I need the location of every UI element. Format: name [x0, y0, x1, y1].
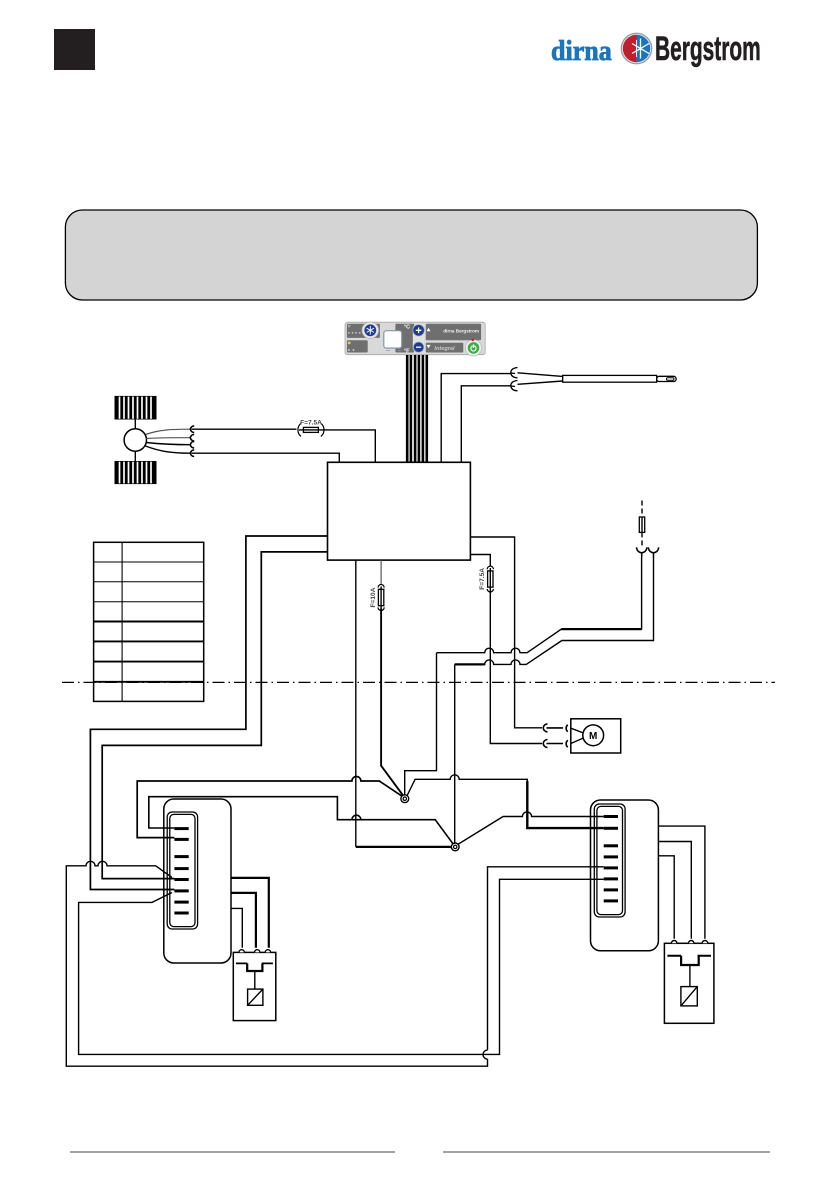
wire box-left to left connector pin5 — [102, 552, 327, 879]
connector fork F4 left — [637, 547, 647, 557]
wire upper horizontal to dashed fuse fork — [437, 557, 642, 653]
power button — [465, 340, 481, 356]
junction node N2 — [451, 843, 459, 851]
right connector to relay K2 wires — [658, 826, 705, 939]
wire node N1 to left connector pin2 — [137, 777, 402, 838]
up arrow — [427, 328, 431, 331]
bottom bus outer: left pin4 to right pin5 — [66, 861, 487, 1066]
svg-text:Bergstrom: Bergstrom — [655, 29, 761, 68]
svg-text:F=10A: F=10A — [370, 587, 377, 607]
snowflake button — [362, 322, 379, 339]
wire fuse F1 to box — [323, 430, 375, 462]
wire fuse F2 to node N1 — [381, 609, 403, 797]
wire left connector pin1 to node N2 — [149, 797, 453, 844]
banner rounded rectangle — [65, 210, 757, 300]
wire fan supply to fuse F1 — [192, 428, 297, 430]
motor M1 — [571, 719, 621, 753]
connector pair motor lower — [543, 740, 563, 748]
centre dash-dot line — [62, 681, 775, 683]
logo dirna Bergstrom — [551, 29, 761, 68]
inline fuse F4 dashed leads — [639, 501, 644, 549]
connector fork fan 4 — [190, 450, 194, 457]
wire sensor lead A — [441, 374, 511, 463]
junction node N1 — [401, 795, 409, 803]
connector fork sensor B — [511, 381, 518, 391]
connector fork fan 2 — [190, 434, 194, 441]
yellow LED — [348, 342, 351, 345]
control box U1 — [328, 462, 471, 560]
panel bottom-left dark block — [347, 340, 368, 352]
svg-text:°C: °C — [404, 325, 410, 331]
svg-text:M: M — [589, 731, 597, 742]
left connector X1 — [164, 799, 231, 963]
CONTROL PANEL — [345, 322, 485, 356]
wire box-right through fuse F3 (lower) — [470, 555, 490, 567]
connector pair motor upper — [543, 724, 563, 732]
fuse F3 7.5A vertical — [487, 566, 493, 592]
left connector to relay K1 wires — [231, 878, 269, 948]
down arrow — [427, 345, 431, 348]
connector fork sensor A — [511, 368, 518, 378]
relay K2 — [664, 941, 714, 1024]
buttons pill — [413, 324, 425, 354]
footer rule left — [70, 1151, 395, 1153]
footer rule right — [443, 1151, 770, 1153]
fan motor wires — [146, 429, 191, 434]
connector table — [94, 542, 204, 701]
wire sensor lead B — [461, 386, 511, 463]
connector fork fan 1 — [190, 426, 194, 433]
wire ribbon from panel to control box — [407, 355, 427, 462]
panel small indicator dots — [348, 325, 350, 327]
bottom bus inner: left pin7 to right pin6 — [79, 879, 604, 1054]
panel right-bottom dark block — [426, 343, 464, 353]
connector fork fan 3 — [190, 441, 194, 448]
minus button — [413, 342, 423, 352]
relay K1 — [233, 950, 275, 1021]
plus button — [413, 325, 424, 336]
display — [384, 331, 402, 348]
svg-text:F=7.5A: F=7.5A — [479, 568, 486, 590]
wire lower horizontal to dashed fuse fork — [455, 558, 654, 664]
svg-text:dirna Bergstrom: dirna Bergstrom — [443, 328, 479, 333]
wire box-right to motor feed (upper) — [470, 537, 542, 728]
black corner square — [54, 29, 95, 70]
wire box-bottom to node N2 — [355, 560, 357, 847]
right connector X2 — [591, 800, 659, 951]
svg-text:dirna: dirna — [551, 35, 612, 66]
hop on pin1 wire over box-bottom vertical — [352, 815, 361, 820]
svg-text:°F: °F — [404, 348, 410, 354]
svg-text:Integral: Integral — [434, 346, 455, 352]
wire node N2 to right connector pin1 — [458, 812, 604, 845]
temperature probe body — [518, 373, 563, 385]
wire box-left to left connector pin6 — [90, 536, 327, 890]
panel mid dark block (°C/°F) — [395, 324, 414, 353]
blower fan B1 — [115, 397, 156, 484]
red LED — [471, 338, 474, 341]
wire node N1 to right connector pin2 — [407, 775, 604, 828]
panel right-top dark block — [426, 324, 481, 341]
fuse F1 7.5A horizontal — [298, 423, 324, 436]
hop on vertical over inner bus — [483, 1050, 488, 1059]
fuse F2 10A vertical — [378, 584, 384, 610]
wire fan ground to box — [192, 453, 340, 462]
wire aux fan feed upper with hops — [405, 653, 437, 795]
wire fuse F3 to motor (lower) — [490, 591, 542, 744]
connector fork F4 right — [648, 547, 658, 558]
wire box-bottom through fuse F2 to node N1 — [380, 560, 382, 584]
panel top-left dark block — [347, 324, 380, 338]
panel base — [345, 322, 485, 355]
svg-text:F=7.5A: F=7.5A — [300, 419, 322, 426]
